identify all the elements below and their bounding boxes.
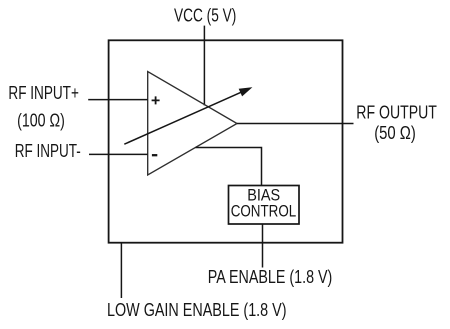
svg-text:PA ENABLE (1.8 V): PA ENABLE (1.8 V) bbox=[208, 267, 332, 287]
wire PA ENABLE bbox=[262, 224, 264, 268]
IC package outline bbox=[109, 40, 343, 242]
svg-text:VCC (5 V): VCC (5 V) bbox=[174, 5, 236, 25]
svg-text:RF OUTPUT: RF OUTPUT bbox=[356, 103, 437, 123]
svg-text:RF INPUT+: RF INPUT+ bbox=[8, 83, 79, 103]
wire RF INPUT- bbox=[89, 153, 148, 155]
wire RF INPUT+ bbox=[88, 99, 148, 101]
block BIAS CONTROL bbox=[229, 186, 300, 225]
wire RF OUTPUT bbox=[237, 123, 354, 125]
wire LOW GAIN ENABLE bbox=[120, 243, 122, 298]
svg-text:RF INPUT-: RF INPUT- bbox=[15, 141, 81, 161]
gain control arrow bbox=[124, 88, 251, 144]
wire bias tap bbox=[196, 148, 262, 186]
op-amp A1 bbox=[148, 72, 237, 176]
pin + label bbox=[152, 96, 160, 104]
wire VCC bbox=[203, 26, 205, 106]
pin - label bbox=[152, 154, 157, 156]
svg-text:(100 Ω): (100 Ω) bbox=[17, 110, 65, 130]
svg-text:LOW GAIN ENABLE (1.8 V): LOW GAIN ENABLE (1.8 V) bbox=[107, 300, 287, 320]
svg-text:CONTROL: CONTROL bbox=[231, 202, 297, 221]
svg-text:(50 Ω): (50 Ω) bbox=[374, 123, 416, 143]
